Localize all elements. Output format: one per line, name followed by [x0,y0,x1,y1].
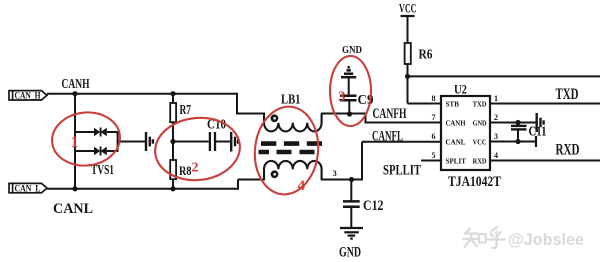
wire upper diode to join bar [107,131,118,133]
red numeral 1 [71,134,79,151]
svg-text:4: 4 [494,151,498,160]
svg-text:CAN_L: CAN_L [15,183,41,193]
resistor R7 [170,94,191,142]
junction C11 bottom [515,139,520,144]
svg-text:R6: R6 [419,48,433,63]
wire to lower TVS diode [75,150,94,152]
junction R6/rail [405,74,410,79]
wire CANH to LB1 pin1 [236,93,265,114]
svg-text:TJA1042T: TJA1042T [448,174,501,190]
connector tag CAN_H [9,91,47,101]
svg-text:R8: R8 [179,164,192,178]
svg-text:CANL: CANL [53,201,93,217]
wire GND pin2 [490,122,536,124]
junction at CANH/TVS [72,91,77,96]
pin name GND [473,119,487,128]
TVS diode lower (bidirectional) [94,147,107,156]
svg-text:C11: C11 [529,125,547,140]
label LB1 [281,92,301,107]
wire TVS to ground [118,141,145,143]
watermark zhihu @Jobslee [464,227,585,249]
junction C9/CANFH [347,111,352,116]
label TVS1 [91,163,114,178]
node label CANFL [372,129,403,145]
svg-text:RXD: RXD [473,157,488,166]
pin name STB [446,100,460,109]
junction at R7/R8/C10 [170,139,175,144]
junction C11 top [515,120,520,125]
wire TVS join bar [117,131,119,152]
pin number 7 [432,113,436,122]
svg-text:TXD: TXD [473,100,488,109]
ground (TVS) right-pointing [146,132,153,151]
svg-text:SPLLIT: SPLLIT [383,163,421,179]
svg-text:3: 3 [494,132,498,141]
resistor R8 [170,142,191,189]
polarity dot bottom [271,170,279,178]
svg-text:CAN_H: CAN_H [15,91,41,101]
power VCC [399,1,417,44]
pin number 5 [432,151,436,160]
svg-text:6: 6 [432,132,436,141]
highlight ellipse 1 [49,109,122,169]
svg-text:TXD: TXD [556,86,579,103]
svg-text:1: 1 [494,94,498,103]
pin name VCC [473,138,487,147]
label TJA1042T [448,174,501,190]
svg-text:2: 2 [494,113,498,122]
svg-text:GND: GND [473,119,487,128]
node label RXD [556,141,580,158]
wire to upper TVS diode [75,131,94,133]
highlight ellipse 4 [251,103,323,197]
pin number 1 [494,94,498,103]
junction C12 [349,177,354,182]
inductor LB1 top winding [264,114,322,132]
wire VCC pin3 [490,141,536,143]
node label TXD [556,86,579,103]
svg-text:7: 7 [432,113,436,122]
wire LB1 bottom to C12 [321,179,363,181]
svg-text:U2: U2 [454,82,467,97]
red numeral 4 [298,178,306,194]
svg-text:CANH: CANH [62,77,90,92]
svg-text:VCC: VCC [399,1,417,16]
node label CANH [62,77,90,92]
wire mid to C10 [173,141,209,143]
red numeral 3 [338,89,346,105]
svg-text:CANFL: CANFL [372,129,403,145]
svg-text:1: 1 [71,134,79,151]
svg-text:@Jobslee: @Jobslee [508,231,584,249]
capacitor C10 [207,118,230,152]
svg-text:5: 5 [432,151,436,160]
svg-text:GND: GND [339,245,361,261]
wire lower diode to join bar [107,150,118,152]
red numeral 2 [192,161,199,176]
svg-text:C12: C12 [363,198,384,214]
pin name TXD [473,100,488,109]
pin number 2 [494,113,498,122]
pin number 4 [494,151,498,160]
junction at CANH/R7 [170,91,175,96]
pin name CANL [446,138,466,147]
svg-text:VCC: VCC [473,138,487,147]
wire CANL net [47,188,238,190]
polarity dot top [271,114,279,122]
ground below C12 (down-pointing) [340,228,363,239]
svg-text:8: 8 [432,94,436,103]
highlight ellipse 3 [330,56,371,126]
svg-text:3: 3 [333,168,337,178]
junction at CANL/TVS [72,186,77,191]
wire CANFL net [362,142,441,180]
svg-text:GND: GND [342,45,362,56]
node label SPLLIT [383,163,421,179]
pin name CANH [446,119,466,128]
svg-text:CANL: CANL [446,138,466,147]
inductor LB1 core [259,144,323,152]
wire CANH net [47,93,238,95]
svg-text:3: 3 [338,89,346,105]
capacitor C12 [343,180,384,228]
wire rail to right edge [408,75,600,77]
pin name SPLIT [446,157,467,166]
wire STB [408,103,442,105]
highlight ellipse 2 [152,114,243,185]
wire TVS tap vertical [74,94,76,189]
svg-text:CANH: CANH [446,119,466,128]
TVS diode upper (bidirectional) [94,128,107,137]
connector tag CAN_L [9,183,47,193]
node label CANL [53,201,93,217]
node label CANFH [373,106,407,122]
ground GND above C9 (up-pointing) [341,67,356,95]
pin number 6 [432,132,436,141]
svg-text:4: 4 [298,178,306,194]
capacitor C11 [511,123,547,142]
LB1 pin number 3 [333,168,337,178]
pin number 3 [494,132,498,141]
svg-text:2: 2 [192,161,199,176]
wire CANFH net [321,114,441,123]
pin number 8 [432,94,436,103]
VCC pin3 end bar [535,136,537,147]
ground (pin2) right-pointing [537,113,544,132]
svg-text:SPLIT: SPLIT [446,157,467,166]
label GND bottom [339,245,361,261]
inductor LB1 bottom winding [264,161,322,180]
svg-text:RXD: RXD [556,141,580,158]
svg-text:CANFH: CANFH [373,106,407,122]
label GND top [342,45,362,56]
wire CANL to LB1 pin [238,180,265,190]
capacitor C9 [340,93,374,114]
wire TXD net [490,103,600,105]
ground (C10) right-pointing [231,132,238,152]
resistor R6 [405,43,433,104]
pin name RXD [473,157,488,166]
wire RXD net [490,160,600,162]
svg-text:STB: STB [446,100,460,109]
svg-text:LB1: LB1 [281,92,301,107]
label U2 [454,82,467,97]
svg-text:R7: R7 [180,103,192,118]
junction at CANL/R8 [170,186,175,191]
wire SPLIT stub [421,160,441,162]
IC U2 body [441,96,490,170]
